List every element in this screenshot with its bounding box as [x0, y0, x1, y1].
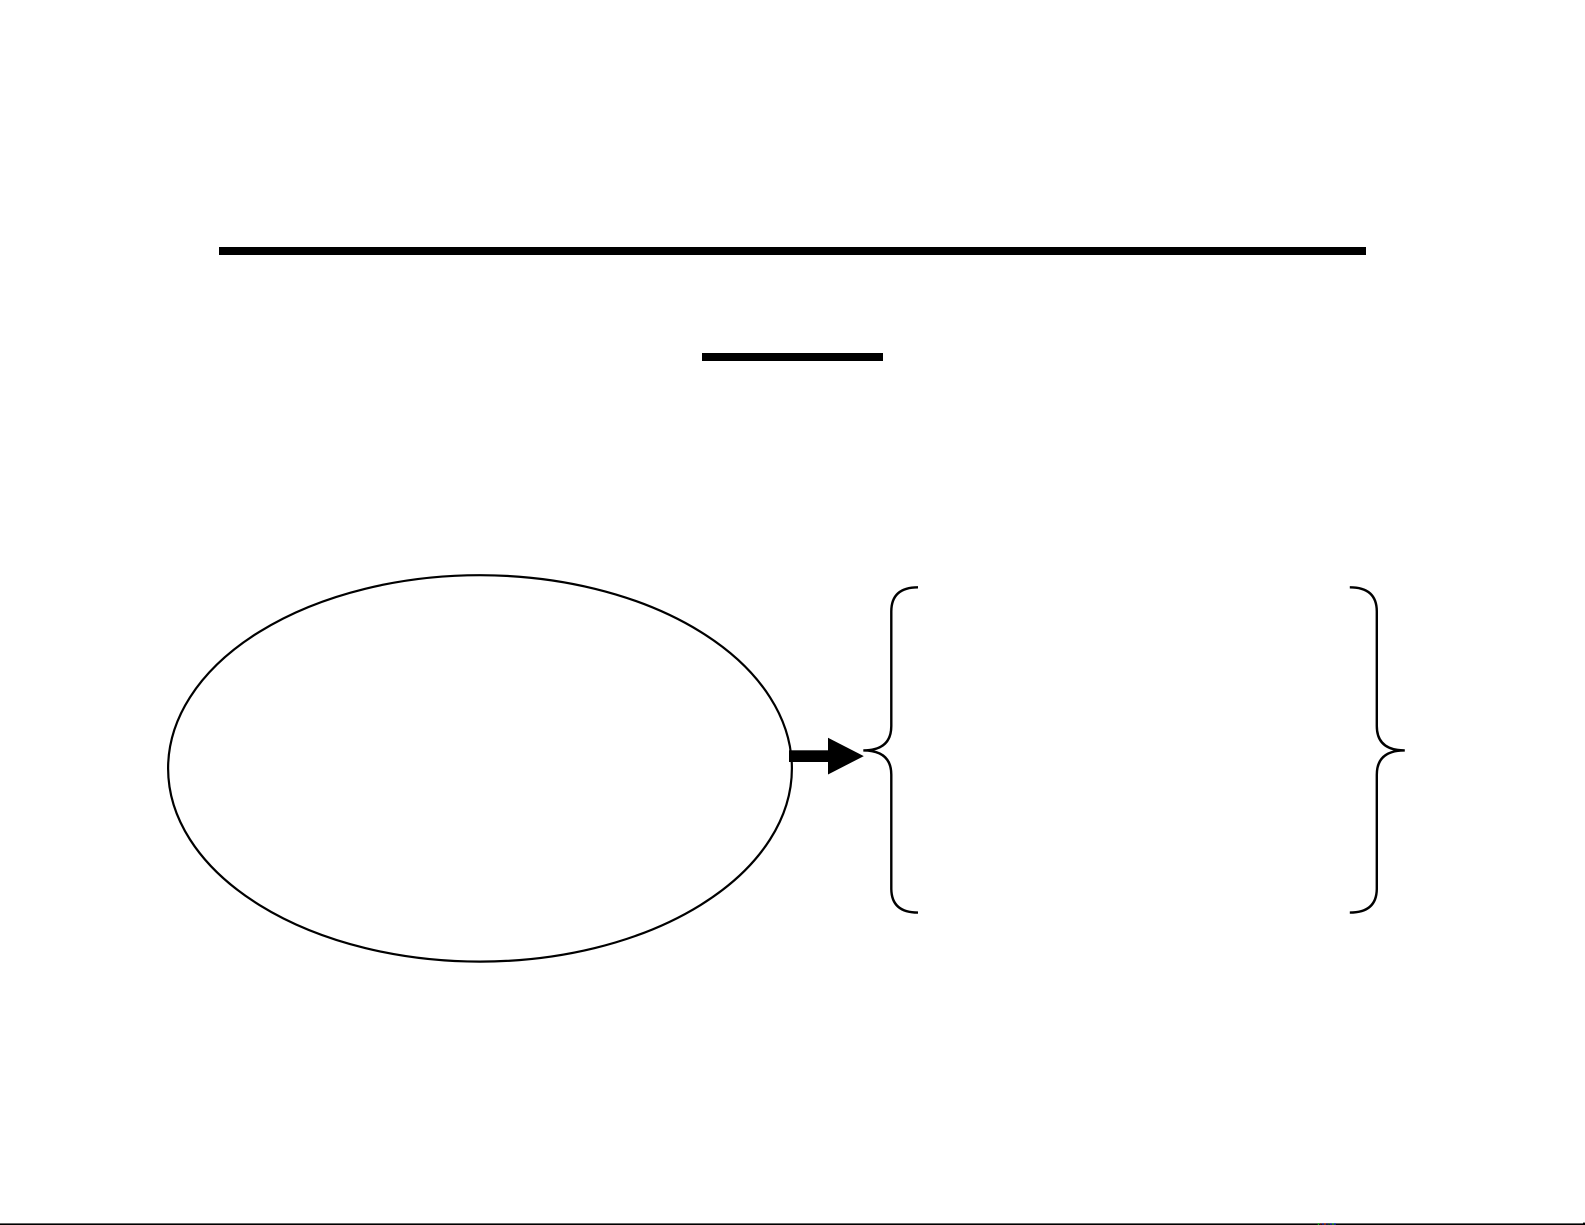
- arrow head: [828, 738, 864, 775]
- title rule (thick): [219, 247, 1366, 255]
- left brace: [863, 587, 918, 912]
- bottom-right corner nub: [1583, 1223, 1585, 1225]
- right brace: [1350, 587, 1405, 912]
- arrow shaft: [789, 750, 829, 762]
- subtitle underline (short thick): [702, 353, 883, 361]
- ellipse: [168, 575, 792, 961]
- micro page-number specks: [1318, 1223, 1336, 1225]
- bottom rule: [0, 1223, 1585, 1225]
